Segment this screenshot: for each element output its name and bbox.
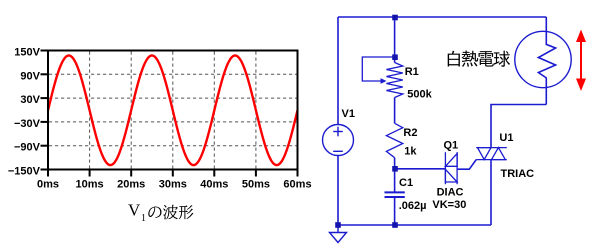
junction node: C1 / bottom rail <box>392 222 398 228</box>
svg-text:150V: 150V <box>14 47 40 59</box>
svg-text:.062µ: .062µ <box>399 200 427 212</box>
svg-text:U1: U1 <box>499 132 513 144</box>
capacitor C1 <box>385 192 405 197</box>
svg-text:R1: R1 <box>405 66 419 78</box>
plot gridlines <box>49 52 297 169</box>
wire lamp branch with filament <box>538 17 555 105</box>
y axis labels <box>8 47 41 178</box>
potentiometer R1 <box>362 57 403 98</box>
plot box border <box>48 51 298 170</box>
wire C1 to bottom rail <box>394 197 396 225</box>
wire top rail <box>338 16 546 18</box>
svg-text:DIAC: DIAC <box>437 187 464 199</box>
svg-text:10ms: 10ms <box>76 179 104 191</box>
ground <box>330 225 347 243</box>
wire TRIAC to bottom rail <box>490 160 492 225</box>
voltage source V1 <box>323 125 354 156</box>
waveform trace V1 <box>48 56 298 166</box>
red intensity arrow <box>576 30 586 92</box>
svg-text:C1: C1 <box>399 177 413 189</box>
triac U1 <box>476 148 507 160</box>
wire DIAC gate to TRIAC <box>457 160 476 170</box>
svg-text:50ms: 50ms <box>242 179 270 191</box>
lamp bulb <box>515 31 571 87</box>
svg-text:−150V: −150V <box>8 166 41 178</box>
resistor R2 <box>386 123 402 157</box>
svg-text:R2: R2 <box>403 127 417 139</box>
svg-text:90V: 90V <box>20 70 40 82</box>
junction node: R1 top / wiper loop <box>392 54 398 60</box>
svg-text:500k: 500k <box>407 89 432 101</box>
junction node: top rail / R1 branch <box>392 15 398 21</box>
wire node to DIAC <box>395 168 446 170</box>
wire R1 to R2 <box>394 98 396 124</box>
diac Q1 <box>445 152 457 184</box>
junction node: R2-C1 / DIAC branch <box>392 166 398 172</box>
svg-text:1k: 1k <box>404 146 417 158</box>
wire R2 to C1 <box>394 158 396 192</box>
svg-text:60ms: 60ms <box>283 179 311 191</box>
svg-text:V: V <box>128 201 141 220</box>
svg-text:V1: V1 <box>342 108 355 120</box>
svg-text:−30V: −30V <box>14 118 41 130</box>
svg-text:20ms: 20ms <box>117 179 145 191</box>
label incandescent lamp <box>448 51 510 67</box>
svg-text:VK=30: VK=30 <box>432 199 466 211</box>
wire lamp to TRIAC <box>491 105 546 148</box>
junction node: V1 / bottom rail (ground) <box>335 222 341 228</box>
x axis labels <box>37 179 312 191</box>
svg-text:Q1: Q1 <box>444 139 459 151</box>
svg-text:TRIAC: TRIAC <box>501 168 535 180</box>
wire top junction to R1 <box>394 17 396 63</box>
svg-text:40ms: 40ms <box>200 179 228 191</box>
svg-text:−90V: −90V <box>14 142 41 154</box>
svg-text:0ms: 0ms <box>37 179 59 191</box>
svg-text:30V: 30V <box>20 94 40 106</box>
svg-text:30ms: 30ms <box>159 179 187 191</box>
chart title V1 no hakei <box>128 201 193 224</box>
wire bottom rail <box>338 224 491 226</box>
svg-text:1: 1 <box>141 213 146 224</box>
wire V1 to bottom rail <box>337 155 339 225</box>
R1 wiper arrowhead <box>381 78 387 84</box>
axis ticks <box>41 51 298 177</box>
wire left side <box>337 17 339 125</box>
